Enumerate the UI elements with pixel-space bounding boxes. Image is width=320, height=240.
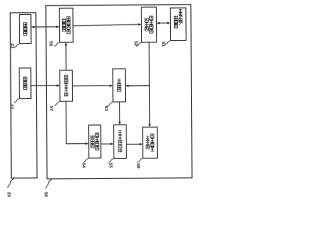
box M2 制御部 [113, 69, 126, 102]
wire T2 down to B3 [148, 42, 151, 125]
leader+numeral 57 (M1) [55, 101, 60, 106]
svg-text:56: 56 [49, 41, 54, 47]
leader+numeral 58 (B3) [138, 158, 143, 163]
wire M1 to M2 [72, 85, 111, 87]
leader+numeral 52 (T2) [136, 42, 141, 47]
svg-text:50: 50 [44, 192, 49, 198]
leader+numeral 50 (right container) [46, 179, 52, 189]
leader+numeral 22 (L2) [14, 99, 19, 104]
leader+numeral 54 (B1) [84, 158, 89, 163]
leader+numeral 20 (left container) [8, 178, 14, 188]
box T1 表示画像生成部 [59, 8, 73, 42]
svg-text:51: 51 [161, 42, 166, 48]
wire M1 down-right to B1 [66, 101, 87, 144]
svg-text:52: 52 [133, 41, 138, 47]
wire B2 to B3 [126, 143, 141, 145]
wire T1-T2 [73, 24, 140, 25]
svg-text:55: 55 [108, 163, 113, 169]
svg-text:20: 20 [7, 192, 12, 198]
svg-text:22: 22 [9, 104, 14, 110]
leader+numeral 55 (B2) [109, 158, 114, 163]
wire branch to M2 [127, 85, 149, 87]
wire M2 down to B2 [119, 102, 121, 123]
wire M1 up to T1 [65, 44, 67, 70]
svg-text:21: 21 [10, 43, 15, 49]
box M1 操作受付部 [60, 70, 73, 101]
box B2 画像解析部 [114, 125, 127, 159]
leader+numeral 51 (T3) [165, 41, 170, 46]
box T2 撮像画像管理部 [141, 7, 156, 42]
leader+numeral 53 (M2) [108, 102, 113, 107]
svg-text:57: 57 [49, 106, 54, 112]
box T3 画像データ記憶部 [170, 8, 186, 41]
wire T1-L1 double arrow [33, 26, 57, 28]
box L2 操作部 [19, 68, 31, 99]
box B3 解析結果出力部 [143, 127, 158, 158]
left container: display device 20 [10, 13, 37, 178]
right container: image processing device 50 [46, 5, 192, 179]
box L1 表示部 [19, 14, 31, 43]
leader+numeral 21 (L1) [14, 44, 19, 49]
wire L2 to M1 [31, 84, 58, 86]
svg-text:54: 54 [81, 163, 86, 169]
wire T2-T3 double arrow [158, 22, 168, 24]
leader+numeral 56 (T1) [54, 42, 59, 47]
box B1 撮像画像取得部 [89, 125, 101, 158]
wire B1 to B2 [101, 143, 112, 145]
svg-text:53: 53 [104, 106, 109, 112]
svg-text:58: 58 [136, 163, 141, 169]
